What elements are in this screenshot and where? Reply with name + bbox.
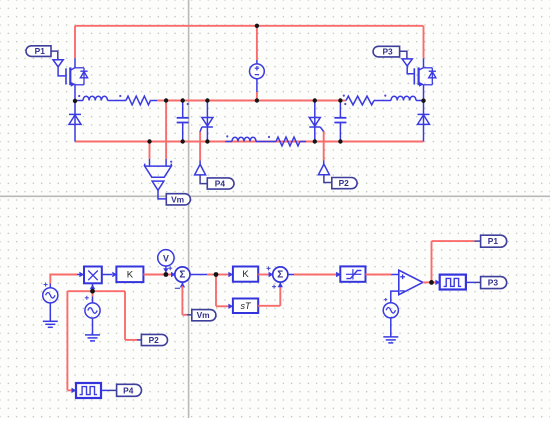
svg-text:P1: P1 <box>35 46 46 56</box>
svg-text:P3: P3 <box>382 47 393 57</box>
svg-text:Σ: Σ <box>179 269 185 280</box>
svg-text:P4: P4 <box>215 179 226 189</box>
svg-text:K: K <box>242 269 249 280</box>
svg-text:K: K <box>127 269 134 280</box>
svg-text:V: V <box>163 253 169 263</box>
svg-text:Vm: Vm <box>197 310 210 320</box>
svg-text:Σ: Σ <box>277 269 283 280</box>
svg-text:P2: P2 <box>339 178 350 188</box>
svg-text:P4: P4 <box>123 385 134 395</box>
svg-text:sT: sT <box>241 301 253 311</box>
svg-text:P2: P2 <box>149 335 160 345</box>
svg-text:Vm: Vm <box>171 194 184 204</box>
svg-text:P1: P1 <box>488 236 499 246</box>
svg-text:P3: P3 <box>488 278 499 288</box>
